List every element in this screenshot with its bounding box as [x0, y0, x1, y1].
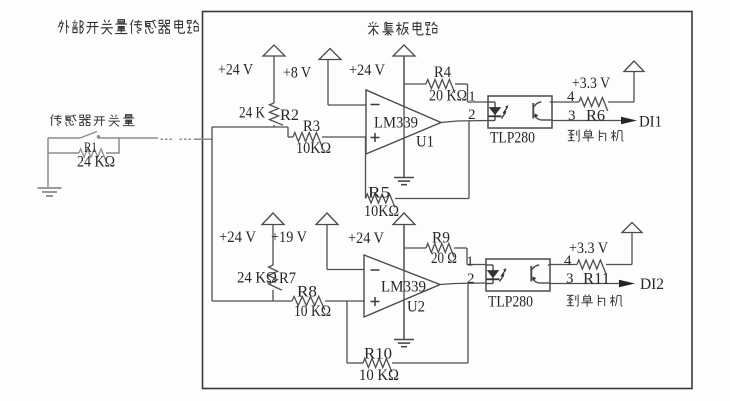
svg-text:24 KΩ: 24 KΩ — [237, 270, 277, 287]
svg-text:TLP280: TLP280 — [488, 294, 533, 311]
svg-text:10 KΩ: 10 KΩ — [359, 367, 399, 384]
svg-text:R6: R6 — [586, 108, 605, 125]
svg-text:DI1: DI1 — [639, 114, 662, 131]
svg-text:U1: U1 — [416, 134, 434, 151]
svg-text:R11: R11 — [583, 271, 610, 288]
svg-text:+24 V: +24 V — [348, 230, 384, 247]
svg-text:R3: R3 — [303, 118, 320, 135]
svg-text:R8: R8 — [297, 284, 317, 301]
svg-text:+24 V: +24 V — [218, 62, 253, 79]
svg-text:R5: R5 — [368, 185, 390, 202]
svg-text:1: 1 — [467, 255, 474, 270]
svg-text:10 KΩ: 10 KΩ — [294, 303, 331, 320]
svg-text:R7: R7 — [279, 270, 296, 287]
svg-text:3: 3 — [566, 271, 574, 287]
svg-text:20 Ω: 20 Ω — [431, 250, 457, 267]
svg-text:LM339: LM339 — [381, 279, 426, 296]
svg-text:20 KΩ: 20 KΩ — [429, 88, 467, 105]
svg-text:2: 2 — [467, 271, 475, 287]
svg-text:+3.3 V: +3.3 V — [572, 75, 611, 92]
svg-text:+8 V: +8 V — [283, 65, 311, 82]
svg-text:LM339: LM339 — [374, 115, 418, 132]
svg-text:1: 1 — [469, 90, 476, 105]
svg-text:10KΩ: 10KΩ — [364, 203, 399, 220]
svg-text:TLP280: TLP280 — [490, 130, 535, 147]
svg-text:+3.3 V: +3.3 V — [569, 240, 609, 257]
svg-text:U2: U2 — [407, 299, 425, 316]
svg-text:R4: R4 — [434, 64, 451, 81]
svg-text:3: 3 — [568, 108, 576, 124]
svg-text:R9: R9 — [432, 230, 450, 247]
svg-text:+24 V: +24 V — [219, 229, 256, 246]
svg-text:+24 V: +24 V — [349, 62, 385, 79]
svg-text:R10: R10 — [364, 346, 392, 363]
svg-text:4: 4 — [564, 253, 572, 269]
svg-text:DI2: DI2 — [640, 276, 664, 293]
svg-text:2: 2 — [468, 107, 476, 123]
svg-text:24 K: 24 K — [239, 105, 265, 122]
svg-text:24 KΩ: 24 KΩ — [77, 154, 115, 171]
svg-text:10KΩ: 10KΩ — [296, 140, 331, 157]
svg-text:4: 4 — [567, 89, 575, 105]
svg-text:+19 V: +19 V — [271, 229, 307, 246]
svg-text:R2: R2 — [280, 107, 299, 124]
